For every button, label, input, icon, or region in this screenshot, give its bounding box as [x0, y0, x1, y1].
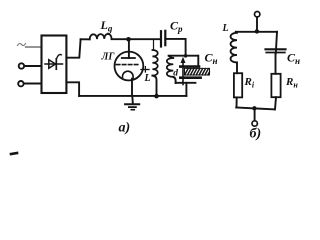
svg-text:L: L: [144, 73, 151, 84]
svg-text:ЛГ: ЛГ: [101, 51, 116, 62]
svg-text:Lg: Lg: [100, 18, 113, 34]
svg-text:Ri: Ri: [244, 76, 255, 90]
svg-text:Cн: Cн: [287, 51, 300, 67]
svg-text:б): б): [250, 127, 262, 142]
svg-text:Cн: Cн: [205, 51, 218, 67]
svg-text:а): а): [119, 121, 131, 136]
svg-text:d: d: [173, 68, 178, 78]
svg-text:Cp: Cp: [170, 19, 183, 35]
svg-text:Rн: Rн: [285, 76, 298, 90]
svg-text:L: L: [222, 23, 229, 34]
